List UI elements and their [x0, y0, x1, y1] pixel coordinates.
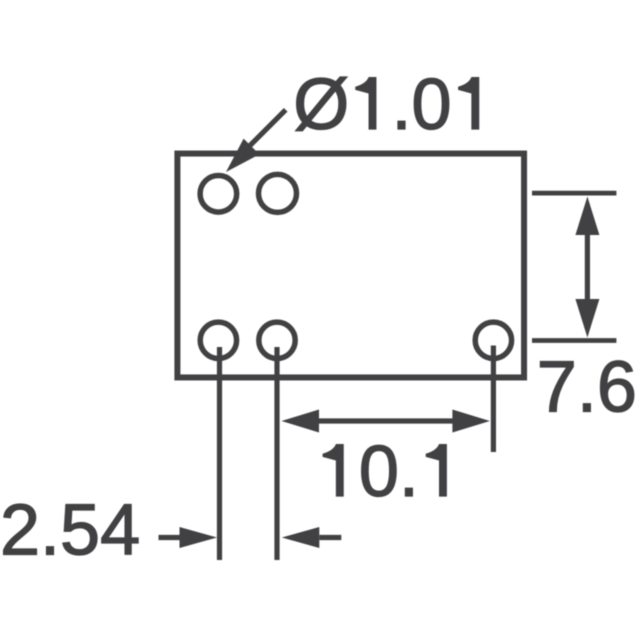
svg-text:Ø: Ø [293, 65, 349, 145]
svg-text:7.6: 7.6 [537, 348, 637, 428]
svg-text:0.: 0. [359, 432, 419, 512]
svg-text:.0: .0 [392, 65, 452, 145]
svg-text:2.54: 2.54 [0, 490, 140, 570]
